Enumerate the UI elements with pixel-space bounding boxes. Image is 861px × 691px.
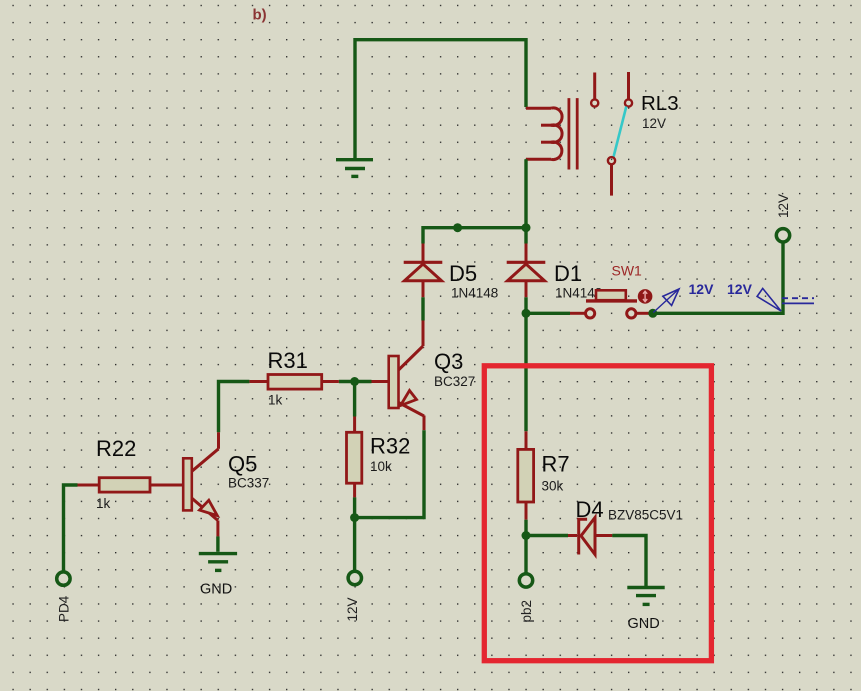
relay RL3 contact pole left [591, 73, 598, 107]
resistor R31 [249, 375, 338, 390]
relay RL3 contact pole right [625, 72, 632, 107]
svg-text:BC337: BC337 [228, 476, 269, 491]
svg-text:Q3: Q3 [434, 349, 463, 374]
resistor R7 [518, 431, 534, 519]
svg-text:12V: 12V [727, 281, 753, 297]
junction [350, 513, 359, 522]
resistor R32 [347, 417, 362, 498]
svg-text:R22: R22 [96, 436, 136, 461]
svg-text:1k: 1k [268, 393, 283, 408]
wire relay bottom to node row [524, 159, 527, 243]
junction [522, 531, 531, 540]
svg-text:D1: D1 [554, 261, 582, 286]
svg-text:12V: 12V [345, 597, 360, 621]
net label arrow (blue) at switch node [653, 289, 679, 313]
wire R31 junction down to R32 [353, 382, 356, 417]
svg-text:BC327: BC327 [434, 374, 475, 389]
ground (top left) [336, 160, 373, 177]
svg-text:D5: D5 [449, 261, 477, 286]
wire Q5 emitter to ground [216, 536, 219, 551]
relay RL3 core bars [569, 98, 577, 169]
terminal 12V (bottom) [348, 571, 361, 584]
svg-text:RL3: RL3 [641, 92, 679, 115]
terminal 12V (top right) [776, 229, 789, 242]
ground (Q5 emitter) [199, 554, 237, 571]
svg-text:GND: GND [200, 582, 232, 598]
svg-text:10k: 10k [370, 459, 392, 474]
wire R7 bottom to pb2 terminal [524, 520, 527, 575]
transistor Q5 (BC337 NPN) [150, 432, 219, 536]
net label arrow (blue) at corner [757, 288, 781, 311]
net label leader (dashed blue) [782, 298, 814, 303]
svg-text:1k: 1k [96, 496, 111, 511]
svg-text:pb2: pb2 [519, 600, 534, 623]
wire switch node row [526, 312, 570, 315]
svg-text:SW1: SW1 [612, 263, 643, 279]
junction [522, 223, 531, 232]
zener diode D4 [568, 518, 612, 555]
wire R22 to PD4 terminal [64, 485, 78, 574]
svg-text:Q5: Q5 [228, 452, 257, 477]
svg-text:R31: R31 [268, 348, 308, 373]
svg-text:12V: 12V [776, 194, 791, 218]
svg-text:12V: 12V [642, 116, 666, 131]
wire Q3 base to R31 [339, 380, 372, 383]
wire R32 bottom / Q3 emitter / 12V terminal [355, 430, 424, 571]
svg-text:R32: R32 [370, 434, 410, 459]
wire horizontal node row to D5 [423, 228, 526, 244]
svg-text:BZV85C5V1: BZV85C5V1 [608, 507, 683, 522]
wire top rail from ground to relay coil [355, 40, 526, 158]
svg-text:30k: 30k [542, 479, 564, 494]
junction [350, 377, 359, 386]
resistor R22 [78, 478, 151, 492]
switch SW1 body [570, 289, 652, 318]
svg-text:PD4: PD4 [57, 595, 72, 622]
svg-text:1N4148: 1N4148 [451, 286, 498, 301]
wire R31 left to Q5 collector [219, 382, 250, 433]
diode D5 [404, 244, 443, 298]
svg-text:12V: 12V [689, 281, 715, 297]
terminal pb2 [519, 574, 532, 587]
wire switch to 12V terminal corner [653, 243, 783, 313]
wire D1 node down to R7 [524, 313, 527, 431]
wire D1 anode down to switch node [524, 297, 527, 313]
junction [522, 309, 531, 318]
junction [453, 223, 462, 232]
transistor Q3 (BC327 PNP) [372, 321, 425, 431]
highlight box (red) [484, 366, 711, 661]
wire D4 to ground [612, 536, 646, 587]
relay RL3 moving blade (cyan) [608, 107, 626, 196]
wire junction to D4 [526, 534, 568, 537]
ground (D4) [627, 588, 664, 605]
terminal PD4 [57, 572, 70, 585]
junction [648, 309, 657, 318]
wire D5 anode down to Q3 collector [421, 297, 424, 320]
diode D1 [507, 244, 546, 298]
svg-text:D4: D4 [576, 497, 604, 522]
relay RL3 coil [526, 108, 562, 160]
svg-text:GND: GND [628, 616, 660, 632]
svg-text:b): b) [253, 7, 267, 24]
svg-text:R7: R7 [542, 452, 570, 477]
